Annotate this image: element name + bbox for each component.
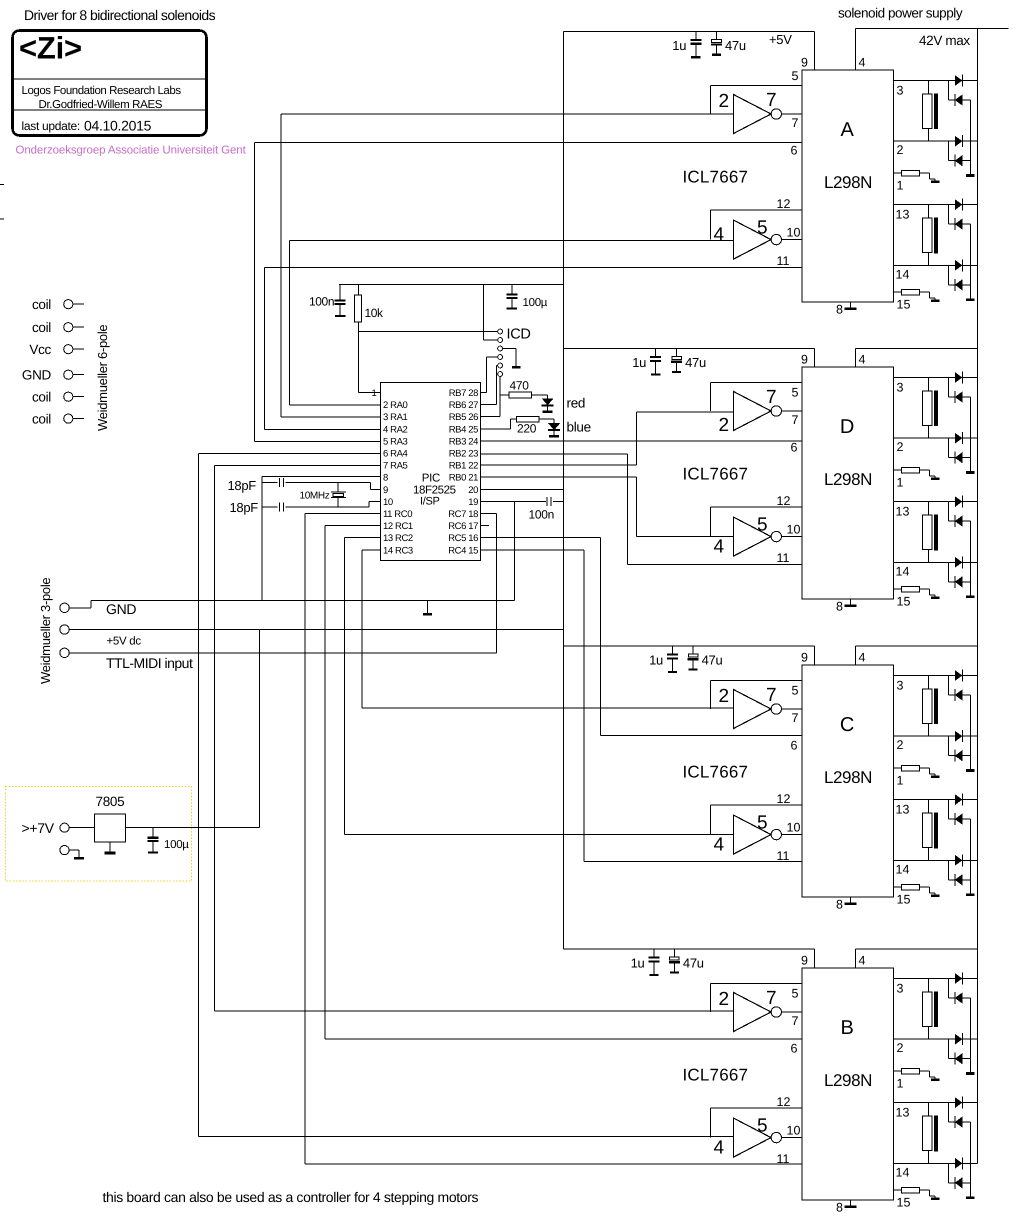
ground B lower diodes [966, 1196, 975, 1199]
svg-text:47u: 47u [685, 355, 706, 370]
svg-text:8: 8 [836, 600, 843, 614]
wire C lower diode gnd vertical [970, 819, 972, 893]
svg-text:47u: 47u [683, 956, 704, 971]
wire ICD pin6 to RB5 [481, 376, 501, 416]
svg-text:04.10.2015: 04.10.2015 [84, 118, 152, 134]
resistor 470 [509, 392, 531, 398]
label 18pF bottom [230, 500, 259, 515]
wire D upper diode gnd vertical [970, 397, 972, 471]
resistor B sense 1 [894, 1068, 940, 1081]
inverter D upper (ICL7667) [734, 392, 803, 431]
svg-text:10: 10 [787, 226, 801, 240]
svg-text:5: 5 [757, 1116, 768, 1137]
wire A lower diode gnd vertical [970, 224, 972, 298]
wire L298N B pin4 riser [855, 949, 857, 968]
wire B lower input run [199, 1136, 734, 1138]
label A pin5 [792, 69, 799, 83]
wire L298N A pin4 riser [855, 29, 857, 70]
label block letter D [840, 416, 854, 438]
label 100n MCLR [309, 295, 334, 309]
svg-text:L298N: L298N [824, 1071, 872, 1090]
wire B pin11 run [305, 1163, 802, 1165]
svg-text:red: red [567, 396, 586, 411]
svg-text:C: C [840, 714, 854, 736]
label 100u 7805 [164, 839, 189, 851]
solenoid A upper [922, 81, 938, 142]
capacitor 100n decoupling [547, 497, 551, 506]
svg-text:11: 11 [777, 254, 790, 268]
svg-text:L298N: L298N [824, 470, 872, 489]
label B pin11 [777, 1152, 790, 1166]
wire B pin14 out [894, 1162, 978, 1164]
svg-text:4: 4 [714, 835, 725, 856]
solenoid B upper [922, 979, 938, 1040]
label C pin4t [859, 651, 866, 665]
diode B lower D3 (to +V) [955, 1157, 963, 1169]
diode A upper D3 (to +V) [955, 135, 963, 147]
svg-text:RB4 25: RB4 25 [449, 424, 478, 435]
wire D pin3 out [894, 377, 978, 379]
label 47u B [683, 956, 704, 971]
label 1u A [672, 38, 686, 53]
diode D lower D1 (to +V) [955, 496, 963, 508]
capacitor 47u C [688, 646, 699, 671]
svg-text:11 RC0: 11 RC0 [383, 509, 412, 520]
label 100n decoupling [529, 508, 555, 522]
svg-text:2: 2 [719, 91, 730, 112]
diode D upper D1 (to +V) [955, 372, 963, 384]
wire D pin14 out [894, 561, 978, 563]
label D inv in 2 [719, 415, 730, 436]
label D pin11 [777, 551, 790, 565]
svg-text:2: 2 [719, 686, 730, 707]
label B pin9 [801, 954, 808, 968]
title block line Logos [22, 85, 182, 97]
diode C lower D1 (to +V) [955, 794, 963, 806]
resistor 10k [354, 285, 361, 332]
resistor D sense 15 [894, 586, 940, 599]
svg-text:18pF: 18pF [230, 500, 259, 515]
solenoid A lower [922, 205, 938, 266]
solenoid D lower [922, 502, 938, 563]
svg-text:12: 12 [777, 1095, 791, 1109]
wire RB2 to D pin11 [481, 454, 802, 565]
diode D lower D2 (from gnd) [948, 502, 970, 527]
svg-text:13: 13 [896, 208, 910, 222]
svg-text:6: 6 [791, 441, 798, 455]
svg-text:13 RC2: 13 RC2 [383, 533, 413, 544]
wire RA4 to B lower input [199, 453, 381, 1136]
svg-text:Weidmueller 6-pole: Weidmueller 6-pole [95, 325, 110, 431]
svg-text:Driver for 8 bidirectional sol: Driver for 8 bidirectional solenoids [24, 7, 216, 23]
svg-text:RB7 28: RB7 28 [449, 388, 478, 399]
label block letter C [840, 714, 854, 736]
wire A lower input run [289, 239, 733, 241]
svg-text:100n: 100n [309, 295, 334, 309]
svg-text:>+7V: >+7V [22, 820, 55, 836]
svg-text:7: 7 [792, 413, 799, 427]
svg-text:19: 19 [468, 497, 478, 508]
svg-text:+5V dc: +5V dc [107, 636, 142, 648]
inverter B lower (ICL7667) [734, 1118, 803, 1157]
svg-text:470: 470 [510, 379, 530, 393]
label A pin7 [792, 116, 799, 130]
label A pin6 [791, 144, 798, 158]
label A pin13 [896, 208, 910, 222]
label B inv out 5 [757, 1116, 768, 1137]
wire Vss descender [513, 501, 515, 600]
svg-text:RB1 22: RB1 22 [449, 461, 478, 472]
wire PIC pin20 Vdd [481, 488, 564, 490]
label C pin1 [897, 774, 904, 788]
wire ICD pin4 to RB7 [481, 357, 487, 393]
svg-text:+5V: +5V [769, 32, 792, 47]
svg-text:blue: blue [567, 420, 591, 435]
svg-text:8: 8 [836, 303, 843, 317]
label D pin13 [896, 505, 910, 519]
label C inv out 5 [757, 813, 768, 834]
svg-text:RB2 23: RB2 23 [449, 449, 478, 460]
wire 470 to red LED [532, 395, 548, 398]
svg-text:10: 10 [787, 523, 801, 537]
svg-text:12: 12 [777, 494, 791, 508]
connector 3-pole pin MIDI [60, 648, 69, 657]
svg-text:1u: 1u [632, 355, 646, 370]
resistor D sense 1 [894, 467, 940, 480]
connector ICD pin 1 [498, 329, 503, 334]
svg-text:9: 9 [801, 954, 808, 968]
svg-text:14: 14 [896, 1165, 910, 1179]
resistor A sense 1 [894, 170, 940, 183]
svg-text:7805: 7805 [96, 794, 125, 809]
svg-text:7: 7 [766, 685, 777, 706]
label GND [106, 601, 136, 617]
svg-text:RC5 16: RC5 16 [448, 533, 478, 544]
wire L298N A pin9 riser [814, 31, 816, 70]
ground D pin8 [845, 599, 857, 607]
label ICD [507, 327, 531, 343]
svg-text:14 RC3: 14 RC3 [383, 545, 413, 556]
wire B pin3 out [894, 978, 978, 980]
label 10MHz [300, 491, 330, 502]
regulator 7805 box [94, 814, 125, 842]
wire to PIC pin 9 [371, 482, 381, 489]
label 220 [517, 422, 537, 436]
diode A upper D2 (from gnd) [948, 81, 970, 107]
label D pin7 [792, 413, 799, 427]
title block date [84, 118, 152, 134]
svg-text:RB3 24: RB3 24 [449, 436, 478, 447]
svg-text:10: 10 [787, 821, 801, 835]
wire A pin5 L-stub [711, 85, 803, 114]
wire RA3 to A pin6 [254, 143, 380, 442]
label D pin3 [897, 381, 904, 395]
diode D lower D3 (to +V) [955, 556, 963, 568]
label B pin3 [897, 982, 904, 996]
L298N D box [802, 367, 894, 599]
svg-text:11: 11 [777, 849, 790, 863]
wire 42V branch B [856, 948, 978, 950]
wire +5V trunk [562, 31, 564, 949]
wire crystal gnd vertical [261, 477, 263, 601]
label D pin8 [836, 600, 843, 614]
label D pin9 [801, 353, 808, 367]
diode D upper D3 (to +V) [955, 432, 963, 444]
svg-text:coil: coil [32, 390, 51, 405]
svg-text:15: 15 [897, 298, 911, 312]
diode C lower D3 (to +V) [955, 854, 963, 866]
svg-text:coil: coil [32, 412, 51, 427]
label B inv in 4 [714, 1138, 725, 1159]
wire D pin5 L-stub [711, 382, 803, 411]
inverter D lower (ICL7667) [734, 517, 803, 556]
svg-text:3: 3 [897, 679, 904, 693]
label +5V dc [107, 636, 142, 648]
capacitor 100n at MCLR [335, 285, 346, 318]
svg-text:<Zi>: <Zi> [19, 31, 82, 66]
PIC internal label [413, 473, 456, 508]
label 47u A [725, 38, 746, 53]
connector ICD pin 6 [498, 372, 503, 377]
wire RA2 to A pin11 [264, 267, 380, 429]
wire ICD pin5 to RB6 [481, 366, 497, 405]
wire RC3 to C upper input [362, 550, 380, 708]
wire RC0 to B pin11 [305, 514, 381, 1164]
wire MCLR node to ICD pin1 [359, 331, 498, 333]
label C pin13 [896, 803, 910, 817]
label 470 [510, 379, 530, 393]
svg-text:6 RA4: 6 RA4 [383, 449, 408, 460]
capacitor 47u B [669, 949, 680, 974]
svg-text:5: 5 [757, 813, 768, 834]
svg-text:2: 2 [719, 989, 730, 1010]
svg-text:GND: GND [22, 368, 52, 383]
label D pin2 [897, 440, 904, 454]
wire B pin12 L-stub [711, 1108, 803, 1138]
capacitor 1u C [667, 646, 678, 673]
capacitor 47u D [671, 349, 682, 374]
wire A pin6 run [254, 142, 802, 144]
connector 6-pole pin 3 (Vcc) [29, 342, 84, 357]
connector 6-pole pin 4 (GND) [22, 368, 84, 383]
label 47u D [685, 355, 706, 370]
label D inv in 4 [714, 537, 725, 558]
wire RB0 to D lower input [481, 477, 637, 536]
ground C pin8 [845, 897, 857, 905]
inverter C upper (ICL7667) [734, 690, 803, 729]
label block letter B [840, 1017, 853, 1039]
label L298N D [824, 470, 872, 489]
wire B pin13 out [894, 1102, 978, 1104]
svg-text:A: A [840, 119, 854, 141]
svg-text:PIC: PIC [422, 473, 440, 485]
svg-text:RC6 17: RC6 17 [448, 521, 478, 532]
diode B upper D1 (to +V) [955, 973, 963, 985]
diode D lower D4 (from gnd) [948, 562, 970, 588]
svg-text:220: 220 [517, 422, 537, 436]
title block last update [22, 119, 80, 133]
label D inv out 7 [766, 387, 777, 408]
label 1u C [649, 653, 663, 668]
wire B upper diode gnd vertical [970, 998, 972, 1072]
wire D pin12 L-stub [711, 507, 803, 537]
wire C pin2 out [894, 735, 978, 737]
wire L298N D pin4 riser [855, 349, 857, 368]
svg-text:20: 20 [468, 485, 478, 496]
wire C pin5 L-stub [711, 680, 803, 709]
wire C upper diode gnd vertical [970, 695, 972, 769]
svg-text:8: 8 [836, 898, 843, 912]
svg-text:12: 12 [777, 197, 791, 211]
wire RB4 to 220 [481, 419, 517, 429]
svg-text:11: 11 [777, 1152, 790, 1166]
label C pin12 [777, 792, 791, 806]
wire RB1 to D upper input [481, 412, 637, 465]
label A pin1 [897, 179, 904, 193]
label TTL-MIDI input [106, 655, 193, 671]
capacitor 18pF bottom [262, 502, 369, 511]
wire A pin13 out [894, 204, 978, 206]
wire RB3 to D pin6 [481, 440, 802, 442]
subtitle purple [16, 145, 247, 157]
svg-text:RC7 18: RC7 18 [448, 509, 478, 520]
label B pin1 [897, 1077, 904, 1091]
wire PIC pin19 Vss [481, 500, 564, 502]
solenoid C upper [922, 676, 938, 737]
svg-text:7: 7 [792, 711, 799, 725]
label C pin7 [792, 711, 799, 725]
label C pin14 [896, 862, 910, 876]
wire 220 to blue LED [539, 419, 554, 423]
svg-text:47u: 47u [725, 38, 746, 53]
svg-text:13: 13 [896, 505, 910, 519]
connector 6-pole pin 2 (coil) [32, 320, 84, 335]
svg-text:11: 11 [777, 551, 790, 565]
svg-text:RC4 15: RC4 15 [448, 545, 478, 556]
capacitor 1u D [650, 349, 661, 376]
svg-text:2 RA0: 2 RA0 [383, 400, 408, 411]
svg-text:9: 9 [801, 353, 808, 367]
ground C lower diodes [966, 893, 975, 896]
wire RC7 to TTL-MIDI [481, 514, 497, 653]
diode B lower D4 (from gnd) [948, 1163, 970, 1189]
svg-text:1: 1 [897, 1077, 904, 1091]
label B pin7 [792, 1014, 799, 1028]
svg-text:14: 14 [896, 267, 910, 281]
svg-text:4: 4 [714, 537, 725, 558]
wire B pin2 out [894, 1038, 978, 1040]
inverter A upper (ICL7667) [734, 95, 803, 134]
wire 42V rail [976, 29, 978, 1164]
label A inv in 2 [719, 91, 730, 112]
label 1u D [632, 355, 646, 370]
ground D lower diodes [966, 595, 975, 598]
svg-text:1: 1 [897, 476, 904, 490]
label C inv in 4 [714, 835, 725, 856]
svg-text:4: 4 [714, 1138, 725, 1159]
svg-text:Logos Foundation Research Labs: Logos Foundation Research Labs [22, 85, 182, 97]
wire A upper input run [281, 113, 734, 115]
wire B upper input run [214, 1010, 733, 1012]
svg-text:TTL-MIDI input: TTL-MIDI input [106, 655, 193, 671]
svg-text:14: 14 [896, 564, 910, 578]
label A inv out 5 [757, 218, 768, 239]
logo Zi [19, 31, 82, 66]
svg-text:Onderzoeksgroep Associatie Uni: Onderzoeksgroep Associatie Universiteit … [16, 145, 247, 157]
svg-text:2: 2 [897, 440, 904, 454]
svg-text:7: 7 [792, 116, 799, 130]
label B inv out 7 [766, 988, 777, 1009]
left edge stub 1 [0, 184, 4, 186]
label D pin5 [792, 386, 799, 400]
wire L298N D pin9 riser [814, 349, 816, 368]
wire 42V branch D [856, 348, 978, 350]
label block letter A [840, 119, 854, 141]
wire A pin14 out [894, 264, 978, 266]
label C pin5 [792, 684, 799, 698]
svg-text:5: 5 [792, 386, 799, 400]
diode A lower D2 (from gnd) [948, 205, 970, 231]
connector ICD pin 2 [483, 338, 502, 343]
label B pin14 [896, 1165, 910, 1179]
label ICL7667 D [683, 465, 749, 484]
label C pin9 [801, 651, 808, 665]
svg-text:15: 15 [897, 893, 911, 907]
svg-text:3: 3 [897, 84, 904, 98]
label C pin6 [791, 739, 798, 753]
label C pin11 [777, 849, 790, 863]
ground A lower diodes [966, 298, 975, 301]
label pin 1 [372, 388, 377, 399]
label D pin4t [859, 353, 866, 367]
capacitor 1u A [690, 31, 701, 58]
svg-text:100µ: 100µ [164, 839, 189, 851]
connector ICD pin 3 [498, 346, 517, 351]
connector ICD pin 5 [497, 363, 503, 368]
svg-text:5: 5 [757, 218, 768, 239]
wire +5V branch A [563, 30, 814, 32]
label D pin10 [787, 523, 801, 537]
label B pin12 [777, 1095, 791, 1109]
wire GND rail [91, 599, 515, 601]
label A pin14 [896, 267, 910, 281]
label D pin6 [791, 441, 798, 455]
svg-text:13: 13 [896, 1106, 910, 1120]
wire RA5 to B upper input [214, 465, 380, 1011]
label B pin8 [836, 1201, 843, 1215]
wire L298N B pin9 riser [814, 949, 816, 968]
wire D upper input run [637, 411, 734, 413]
svg-text:RB0 21: RB0 21 [449, 473, 478, 484]
wire 7805 output riser [258, 630, 260, 828]
wire C pin13 out [894, 799, 978, 801]
svg-text:10MHz: 10MHz [300, 491, 330, 502]
wire +5V branch C [563, 645, 814, 647]
svg-text:1u: 1u [672, 38, 686, 53]
crystal 10MHz [331, 482, 346, 507]
wire 42V branch A [856, 28, 1009, 30]
wire RC4 to C pin11 [481, 550, 802, 862]
ground C upper diodes [966, 769, 975, 772]
svg-text:RB6 27: RB6 27 [449, 400, 478, 411]
label 18pF top [228, 478, 257, 493]
solenoid C lower [922, 800, 938, 861]
label C inv out 7 [766, 685, 777, 706]
label D pin12 [777, 494, 791, 508]
wire 42V branch C [856, 645, 978, 647]
label L298N A [824, 173, 872, 192]
diode C lower D2 (from gnd) [948, 800, 970, 826]
